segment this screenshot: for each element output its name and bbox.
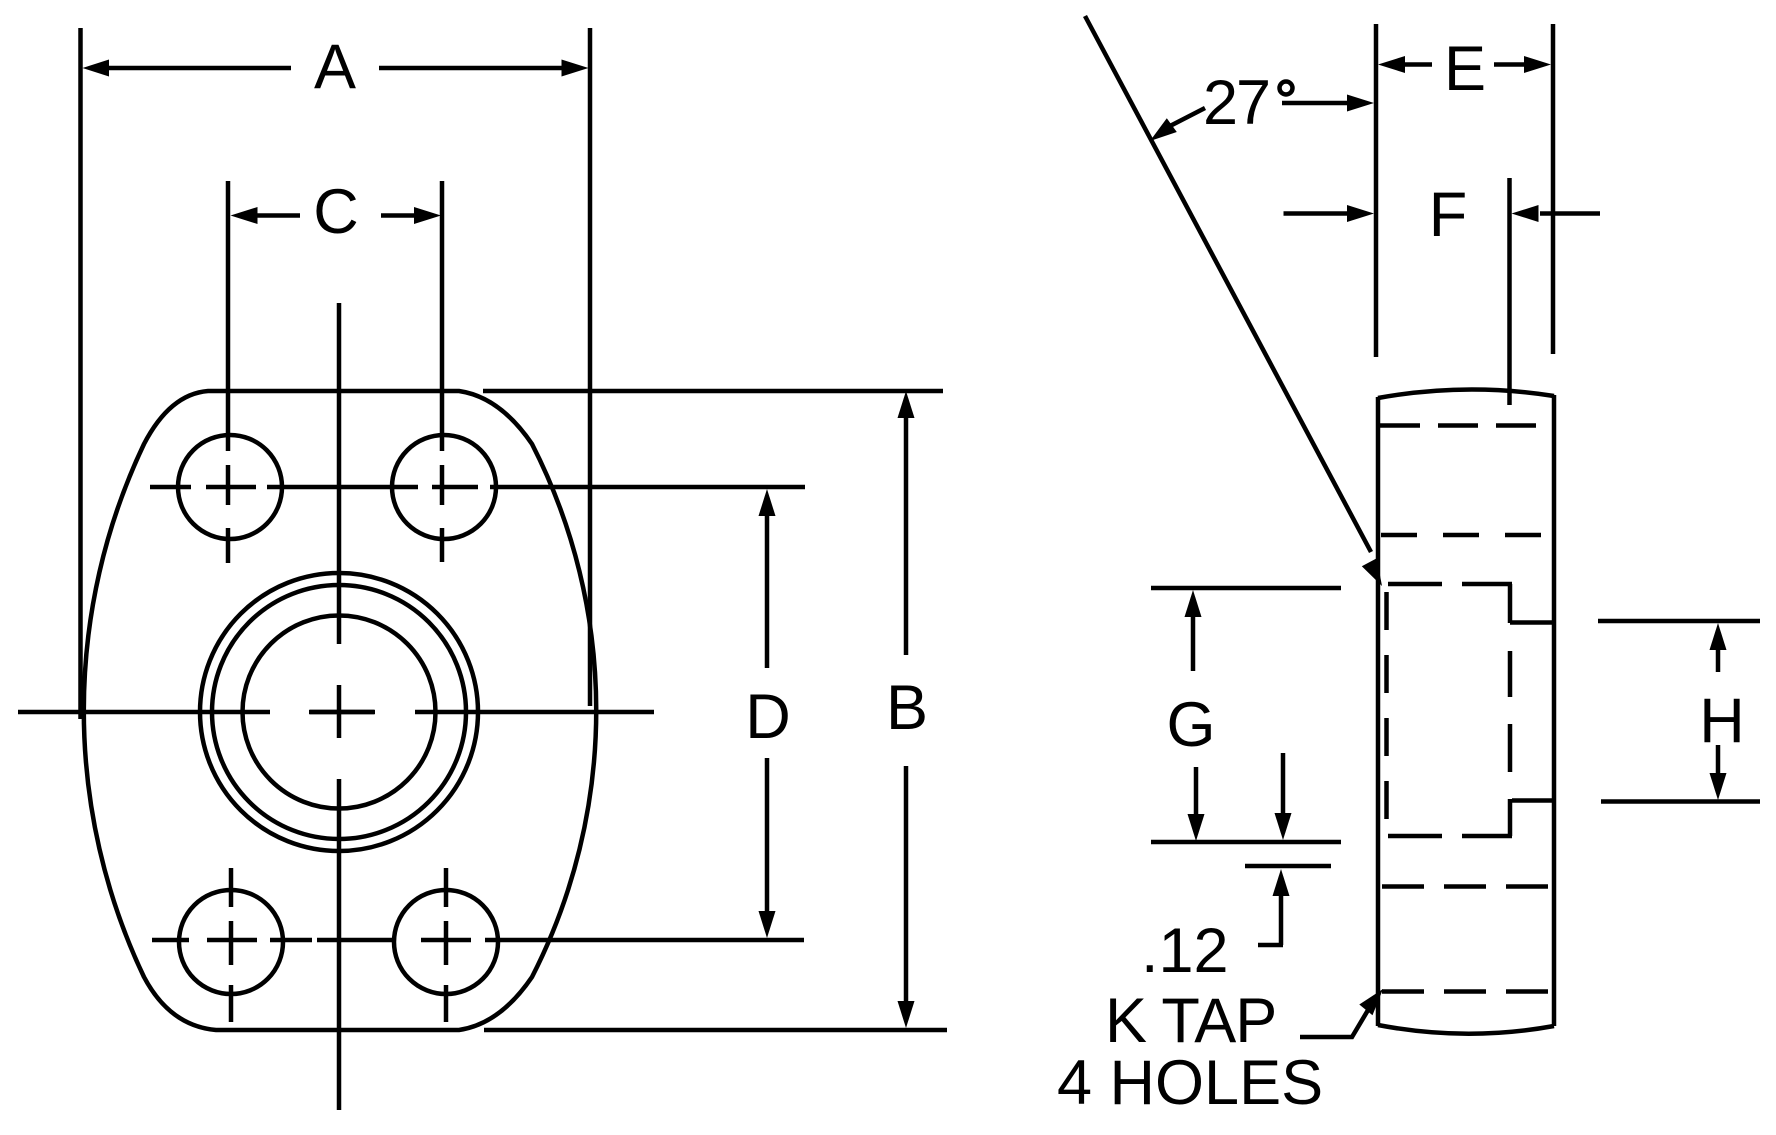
hidden line counterbore upper xyxy=(1388,582,1512,587)
svg-text:E: E xyxy=(1444,34,1486,104)
27 degree leader to face xyxy=(1282,95,1374,112)
dimension G extension line top xyxy=(1151,586,1341,591)
bolt hole bottom-right xyxy=(394,890,498,994)
bolt hole top-right xyxy=(392,435,496,539)
flange outline (front view) xyxy=(84,391,596,1030)
27 degree construction line xyxy=(1085,16,1371,552)
svg-text:27: 27 xyxy=(1203,68,1269,138)
dimension F extension line right xyxy=(1507,178,1512,405)
svg-text:F: F xyxy=(1429,180,1467,250)
svg-text:K TAP: K TAP xyxy=(1105,986,1276,1056)
dimension H extension line bottom xyxy=(1601,799,1760,804)
right C extension / top-right hole vertical centerline xyxy=(440,181,445,562)
dimension G extension line bottom xyxy=(1151,840,1341,845)
boss step lower corner xyxy=(1510,799,1554,836)
dimension B xyxy=(886,391,928,1028)
hidden line near left face vertical xyxy=(1384,592,1389,830)
.12 upper arrow xyxy=(1275,753,1292,840)
dimension H xyxy=(1699,623,1745,800)
svg-text:C: C xyxy=(313,177,359,247)
dimension C xyxy=(231,177,442,247)
dimension A xyxy=(83,32,589,102)
dimension E xyxy=(1378,34,1551,104)
dimension D xyxy=(745,489,791,938)
27 degree line arrowhead at seat corner xyxy=(1362,558,1382,586)
side view body right face xyxy=(1552,395,1557,1026)
dimension E extension line left xyxy=(1374,24,1379,357)
top holes horizontal centerline (doubles as D top extension) xyxy=(150,485,805,490)
svg-text:A: A xyxy=(314,32,356,102)
svg-text:B: B xyxy=(886,673,928,743)
hidden line counterbore lower xyxy=(1388,834,1512,839)
.12 offset line xyxy=(1245,864,1331,869)
bottom-left hole vertical centerline xyxy=(229,868,234,1022)
center port circle inner xyxy=(243,616,436,809)
dimension A extension line left xyxy=(78,28,83,719)
dimension B extension line top xyxy=(483,389,943,394)
left C extension / top-left hole vertical centerline xyxy=(226,181,231,563)
27 degree label xyxy=(1203,68,1293,138)
svg-text:H: H xyxy=(1699,686,1745,756)
hidden line bottom bolt hole upper xyxy=(1382,884,1553,889)
side view body left face xyxy=(1376,397,1381,1026)
27 degree leader to line xyxy=(1150,108,1205,141)
hidden line bottom bolt hole lower xyxy=(1382,989,1553,994)
center port circle middle xyxy=(212,585,466,839)
main horizontal centerline xyxy=(18,710,654,715)
svg-text:D: D xyxy=(745,682,791,752)
boss step upper corner xyxy=(1510,584,1554,623)
dimension B extension line bottom xyxy=(484,1028,947,1033)
K TAP leader xyxy=(1300,989,1383,1037)
bottom-right hole vertical centerline xyxy=(444,868,449,1022)
.12 lower arrow and leader xyxy=(1258,869,1290,945)
side view bottom edge xyxy=(1378,1025,1554,1034)
dimension E extension line right xyxy=(1551,24,1556,354)
dimension H extension line top xyxy=(1598,619,1760,624)
center port circle outer xyxy=(200,573,478,851)
main vertical centerline xyxy=(337,303,342,1110)
dimension F xyxy=(1284,180,1601,250)
hidden vertical between steps xyxy=(1508,651,1513,772)
dimension G xyxy=(1166,590,1215,841)
bottom holes horizontal centerline (doubles as D bottom extension) xyxy=(152,938,804,943)
dimension A extension line right xyxy=(588,28,593,706)
bolt hole top-left xyxy=(178,435,282,539)
side view top edge xyxy=(1378,389,1554,398)
svg-text:4 HOLES: 4 HOLES xyxy=(1057,1048,1323,1118)
hidden line top bolt hole lower xyxy=(1381,533,1553,538)
svg-text:G: G xyxy=(1166,690,1215,760)
bolt hole bottom-left xyxy=(179,890,283,994)
svg-text:.12: .12 xyxy=(1141,916,1229,986)
hidden line top bolt hole upper xyxy=(1380,423,1553,428)
center crosshair of port xyxy=(309,710,374,715)
